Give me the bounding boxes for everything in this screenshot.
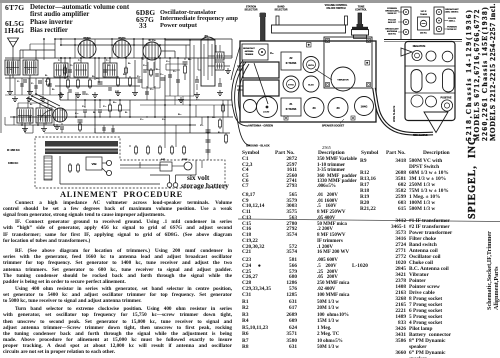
- svg-text:R₋: R₋: [128, 63, 131, 65]
- wire lead bundle: [231, 46, 240, 80]
- ground: [56, 124, 58, 127]
- svg-text:6L5G: 6L5G: [308, 85, 314, 87]
- svg-text:C₁₇: C₁₇: [173, 71, 176, 73]
- terminal B2: [426, 73, 436, 83]
- pointer line: [254, 63, 268, 104]
- chassis screw: [307, 43, 312, 48]
- wire: [169, 175, 171, 183]
- capacitor C6: [103, 69, 107, 71]
- resistor R17: [219, 118, 221, 120]
- wire: [55, 85, 140, 87]
- wire: [60, 99, 232, 101]
- svg-text:R₁₈: R₁₈: [218, 132, 222, 134]
- wire: [64, 58, 66, 78]
- tiny marks: [69, 57, 70, 58]
- capacitor C21 stack: [207, 117, 209, 155]
- wire: [24, 125, 26, 133]
- antenna coil L2: [23, 60, 38, 75]
- capacitor C29: [60, 126, 64, 128]
- svg-text:ANTENNA - GREEN: ANTENNA - GREEN: [248, 124, 273, 128]
- capacitor C2: [23, 79, 27, 81]
- strip1 ticks: [398, 11, 404, 13]
- paragraph 5: [3, 306, 232, 355]
- wire: [222, 100, 224, 133]
- svg-text:C₁₆: C₁₆: [160, 74, 163, 76]
- capacitor C15: [138, 79, 143, 81]
- right edge rotated model text: [488, 3, 497, 141]
- wire: [59, 92, 61, 100]
- terminal C3: [441, 100, 452, 111]
- tuning condenser box: [324, 37, 372, 88]
- ALINEMENT PROCEDURE title: [60, 190, 183, 199]
- speaker magnet: [244, 100, 257, 113]
- tube 1H4G: [53, 108, 67, 122]
- grid wire: [161, 50, 175, 52]
- svg-text:C₂₇: C₂₇: [103, 106, 107, 108]
- svg-text:C₆: C₆: [67, 76, 70, 78]
- svg-text:#2: #2: [290, 56, 293, 60]
- six volt storage battery label: [187, 173, 209, 182]
- IF trimmer box: [418, 17, 430, 30]
- wire: [195, 105, 197, 117]
- trimmer box C4: [242, 44, 268, 60]
- svg-text:C₅: C₅: [70, 65, 73, 67]
- ground: [180, 97, 182, 100]
- resistor R14: [150, 68, 152, 70]
- svg-text:S₁: S₁: [30, 104, 32, 106]
- IF transformer 1 box: [281, 98, 301, 116]
- ground: [9, 89, 11, 92]
- wire: [129, 145, 131, 147]
- svg-text:C₂₅: C₂₅: [75, 113, 79, 115]
- svg-text:33: 33: [336, 106, 340, 110]
- svg-text:FUSE: FUSE: [182, 159, 188, 161]
- RF coil L3: [17, 108, 33, 123]
- node: [13, 116, 15, 118]
- trimmer strip 1: [401, 7, 411, 40]
- svg-text:33: 33: [204, 34, 208, 38]
- wire: [17, 103, 19, 108]
- wire: [120, 167, 160, 169]
- resistor R5: [117, 76, 119, 78]
- resistor R22: [222, 103, 224, 105]
- svg-text:BROADCAST: BROADCAST: [243, 47, 255, 50]
- wire: [14, 78, 16, 95]
- svg-text:POSITIVE: POSITIVE: [440, 96, 451, 99]
- paragraph 2: [3, 219, 232, 244]
- svg-text:L₂: L₂: [28, 69, 30, 71]
- wire: [5, 94, 60, 96]
- svg-text:5400 KC: 5400 KC: [388, 21, 397, 24]
- vibrator VIB: [86, 157, 102, 170]
- volume control shaft: [345, 16, 348, 25]
- tube socket 33b: [328, 98, 348, 118]
- output transformer T5: [215, 52, 224, 60]
- wire: [169, 58, 171, 96]
- svg-text:C₇: C₇: [96, 78, 99, 80]
- wire: [59, 156, 61, 184]
- svg-text:IF 456 KC: IF 456 KC: [7, 148, 20, 152]
- capacitor C11: [106, 160, 111, 165]
- svg-text:CONTROL: CONTROL: [355, 9, 367, 12]
- resistor R12: [125, 66, 127, 68]
- svg-text:ANTENNA: ANTENNA: [245, 50, 254, 53]
- resistor R8: [129, 76, 131, 78]
- wire: [102, 162, 107, 164]
- power supply box: [35, 137, 225, 188]
- wire: [140, 104, 233, 106]
- tube socket 6L5G: [303, 76, 319, 92]
- parts list left: descriptions: [317, 157, 357, 190]
- chassis screw: [365, 61, 370, 66]
- IF transformer T4: [103, 63, 117, 77]
- resistor R7: [77, 163, 79, 165]
- svg-text:WIRE SLEEVE: WIRE SLEEVE: [393, 105, 396, 122]
- parts list left: part numbers: [268, 157, 297, 190]
- wire: [174, 96, 176, 105]
- wire: [60, 109, 130, 111]
- switch arc: [40, 110, 54, 120]
- node: [141, 57, 143, 59]
- tube socket 6S7G: [303, 57, 319, 73]
- svg-text:SELECTOR: SELECTOR: [275, 9, 288, 12]
- wire: [55, 38, 232, 40]
- terminal A2: [426, 51, 436, 61]
- svg-text:SELECTOR: SELECTOR: [245, 9, 258, 12]
- svg-text:C₈: C₈: [86, 94, 89, 96]
- wire: [22, 50, 24, 58]
- wire: [4, 117, 6, 125]
- wire: [196, 76, 198, 80]
- svg-text:456 KC: 456 KC: [420, 32, 427, 35]
- ground: [196, 92, 198, 95]
- capacitor C32: [68, 89, 72, 91]
- wire: [59, 75, 61, 100]
- capacitor C13: [161, 77, 166, 79]
- tube socket 6T7G: [283, 76, 299, 92]
- svg-text:C₁₈: C₁₈: [143, 65, 147, 67]
- wire: [18, 102, 48, 104]
- wire: [201, 160, 203, 168]
- antenna: [12, 47, 14, 60]
- svg-text:R₁₉: R₁₉: [188, 59, 191, 61]
- wire: [166, 63, 186, 65]
- wire: [7, 60, 9, 75]
- ground: [43, 126, 45, 129]
- svg-text:BAT.: BAT.: [161, 158, 166, 161]
- parts list right: part numbers: [378, 158, 406, 356]
- crease line: [238, 219, 500, 222]
- resistor R6: [79, 122, 81, 124]
- svg-text:C₁₅: C₁₅: [137, 76, 141, 78]
- svg-text:RED SLEEVE: RED SLEEVE: [413, 135, 428, 137]
- chassis outline: [240, 41, 376, 122]
- ground: [134, 90, 136, 93]
- wire: [146, 58, 148, 70]
- wire: [61, 123, 63, 125]
- tube 6S7G: [113, 40, 131, 58]
- wire: [94, 128, 96, 133]
- parts list right: descriptions: [409, 158, 452, 358]
- ground: [14, 96, 16, 99]
- resistor R11: [64, 66, 66, 68]
- capacitor C26: [83, 109, 87, 111]
- schematic index rotated: [486, 231, 493, 310]
- resistor R20: [109, 103, 111, 105]
- svg-text:TRIMMER: TRIMMER: [245, 54, 254, 56]
- terminal A1: [412, 51, 422, 61]
- capacitor C24: [145, 91, 149, 93]
- ground: [117, 90, 119, 93]
- capacitor C9: [20, 83, 24, 85]
- wire: [24, 123, 26, 126]
- loudspeaker: [257, 97, 278, 118]
- svg-text:6T7G: 6T7G: [149, 38, 156, 42]
- svg-text:T₃: T₃: [106, 60, 108, 62]
- wire: [5, 57, 232, 59]
- filter choke L5: [44, 156, 52, 180]
- svg-text:SPEAKER SOCKET: SPEAKER SOCKET: [322, 125, 345, 128]
- svg-text:C₂₂: C₂₂: [140, 119, 144, 121]
- resistor R3: [69, 163, 71, 165]
- wire: [60, 39, 62, 45]
- wire: [9, 75, 11, 89]
- wire: [208, 55, 215, 57]
- svg-text:IF TRANS: IF TRANS: [286, 62, 297, 65]
- svg-text:33: 33: [312, 106, 316, 110]
- svg-text:R₄: R₄: [92, 76, 95, 78]
- svg-text:5400-L: 5400-L: [449, 20, 456, 23]
- wire: [146, 86, 148, 100]
- svg-text:VIB: VIB: [91, 162, 97, 166]
- svg-text:#1: #1: [290, 102, 293, 106]
- svg-text:1H4G: 1H4G: [361, 105, 368, 109]
- capacitor C31: [195, 79, 199, 81]
- resistor R19: [184, 64, 186, 66]
- tone control shaft: [358, 13, 362, 25]
- svg-text:C₃: C₃: [45, 81, 48, 83]
- svg-text:C₆: C₆: [108, 65, 111, 67]
- SPIEGEL INC rotated: [467, 133, 478, 219]
- wire speaker lead: [238, 64, 249, 112]
- paragraph 1: [3, 200, 232, 219]
- capacitor C27: [98, 109, 102, 111]
- svg-text:R₆: R₆: [93, 112, 96, 114]
- node: [84, 99, 86, 101]
- svg-text:6S7G: 6S7G: [308, 65, 314, 67]
- RF coil L4: [36, 108, 52, 123]
- resistor R4: [89, 78, 91, 80]
- wire: [10, 116, 233, 118]
- wire: [165, 95, 194, 97]
- ground: [227, 68, 229, 71]
- svg-text:6D8G: 6D8G: [83, 36, 90, 40]
- capacitor C17: [176, 79, 180, 81]
- svg-text:1ST IF: 1ST IF: [420, 11, 427, 13]
- wire: [189, 40, 191, 133]
- svg-text:R₂₀: R₂₀: [113, 102, 117, 104]
- svg-text:C₂₆: C₂₆: [82, 106, 86, 108]
- battery terminal +: [167, 183, 172, 188]
- wire: [60, 44, 190, 46]
- bat fuse box: [160, 162, 172, 171]
- trimmer panel base: [384, 39, 462, 41]
- svg-text:T₂: T₂: [78, 60, 80, 62]
- wire antenna lead: [232, 60, 248, 126]
- power transformer T6: [45, 141, 118, 147]
- coil shield: [243, 80, 279, 96]
- IF transformer 2 box: [281, 52, 301, 70]
- wire: [184, 58, 186, 60]
- svg-text:GROUND - BLACK: GROUND - BLACK: [246, 144, 270, 148]
- ground: [29, 89, 31, 92]
- wire: [20, 49, 55, 51]
- svg-text:1400 KC: 1400 KC: [388, 33, 397, 36]
- wire: [94, 58, 96, 80]
- capacitor C7: [183, 61, 188, 63]
- ground: [60, 92, 62, 95]
- battery terminal -: [173, 183, 178, 188]
- ground: [77, 92, 79, 95]
- svg-text:C₁₂: C₁₂: [166, 61, 169, 63]
- wire: [215, 45, 217, 52]
- tube 6D8G: [78, 40, 96, 58]
- wire: [84, 100, 86, 108]
- IF transformer T3: [74, 63, 88, 77]
- wire: [197, 58, 199, 70]
- resistor R21: [119, 103, 121, 105]
- trimmer strip 2: [434, 7, 444, 34]
- svg-text:NEGATIVE: NEGATIVE: [413, 45, 426, 48]
- svg-text:C₂₃: C₂₃: [162, 119, 166, 121]
- svg-text:IF TRANS: IF TRANS: [286, 108, 297, 111]
- wire: [142, 39, 144, 60]
- tube 6T7G: [143, 42, 161, 60]
- terminal C2: [426, 96, 437, 107]
- node: [60, 57, 62, 59]
- wire: [60, 58, 62, 63]
- output tube 33: [201, 40, 215, 86]
- pointer 6S7G: [315, 69, 332, 80]
- strip2 ticks: [445, 11, 449, 13]
- tube socket 1H4G: [355, 97, 374, 116]
- resistor R10: [47, 77, 49, 79]
- svg-text:C₂₁: C₂₁: [200, 125, 204, 127]
- battery panel: [405, 42, 455, 121]
- positive plug: [424, 112, 448, 133]
- capacitor C8: [98, 81, 103, 83]
- antenna coil L1: [5, 60, 20, 75]
- wire: [141, 58, 143, 88]
- svg-text:C₂₄: C₂₄: [150, 89, 154, 91]
- capacitor C20: [78, 119, 83, 121]
- svg-text:R₁₀: R₁₀: [178, 114, 181, 116]
- tube function list column 1: [5, 3, 24, 12]
- capacitor C5: [68, 69, 72, 71]
- svg-text:1560 KC: 1560 KC: [8, 161, 18, 165]
- ground: [24, 126, 26, 129]
- svg-text:ON-OFF SWITCH: ON-OFF SWITCH: [326, 7, 346, 10]
- svg-text:R₁₇: R₁₇: [212, 117, 215, 119]
- resistor R2: [77, 78, 79, 80]
- svg-text:R₇: R₇: [125, 112, 128, 114]
- wire: [5, 77, 140, 79]
- battery cable: [374, 88, 433, 134]
- wire ground lead: [235, 62, 250, 146]
- paragraph 3: [3, 248, 232, 285]
- capacitor C3: [38, 80, 42, 82]
- svg-text:R₂: R₂: [52, 89, 55, 91]
- wire: [12, 60, 14, 78]
- svg-text:15000 KC: 15000 KC: [387, 13, 397, 15]
- resistor R18: [225, 133, 227, 135]
- svg-text:6T7G: 6T7G: [288, 85, 294, 87]
- coil shield: [243, 62, 279, 78]
- resistor row R13-R16: [135, 145, 137, 147]
- parts list right: symbols: [360, 158, 376, 212]
- svg-text:C₄: C₄: [270, 51, 274, 55]
- wire: [95, 132, 230, 134]
- negative pointer: [401, 48, 412, 56]
- svg-text:R₃: R₃: [61, 94, 64, 96]
- svg-text:C₁₀: C₁₀: [115, 91, 118, 93]
- svg-text:L₁: L₁: [10, 69, 12, 71]
- capacitor C16: [168, 74, 172, 76]
- wire: [142, 87, 160, 89]
- svg-text:15750 KC: 15750 KC: [447, 29, 457, 31]
- svg-text:VIBRATOR: VIBRATOR: [337, 79, 349, 82]
- capacitor C30: [102, 127, 106, 129]
- svg-text:C₁₉: C₁₉: [196, 99, 199, 101]
- svg-text:TRANS: TRANS: [420, 13, 428, 16]
- fuse capsule 1: [411, 70, 422, 93]
- parts list headers: [242, 150, 259, 156]
- node: [64, 57, 66, 59]
- fuse capsule 2: [443, 69, 455, 92]
- wire: [13, 117, 15, 125]
- parts list left: symbols: [242, 157, 252, 190]
- chassis screw: [284, 116, 288, 120]
- svg-text:6S7G: 6S7G: [118, 36, 125, 40]
- wire: [164, 125, 166, 148]
- chassis screw: [351, 116, 355, 120]
- top scan edge band: [0, 0, 500, 3]
- dial bar: [272, 25, 346, 33]
- svg-text:R₅: R₅: [123, 74, 126, 76]
- svg-text:C₂: C₂: [31, 83, 34, 85]
- wire: [19, 50, 21, 60]
- tube function list column 2: [136, 8, 155, 17]
- svg-text:R₁₄: R₁₄: [156, 69, 160, 71]
- wire: [18, 124, 196, 126]
- wire: [165, 39, 201, 41]
- tube socket 33: [304, 98, 324, 118]
- ground: [94, 92, 96, 95]
- svg-text:R₁: R₁: [45, 75, 48, 77]
- resistor R1: [67, 78, 69, 80]
- svg-text:LOUD: LOUD: [263, 112, 270, 114]
- paragraph 4: [3, 286, 232, 305]
- wire: [84, 112, 86, 117]
- station selector shaft: [261, 13, 266, 41]
- vibrator can: [331, 67, 355, 91]
- band switch S1: [28, 98, 52, 110]
- svg-text:T₁: T₁: [58, 60, 60, 62]
- band selector shaft: [276, 16, 279, 25]
- oscillator coil T2: [54, 63, 68, 77]
- terminal C1: [411, 95, 423, 107]
- svg-text:C₁: C₁: [17, 81, 20, 83]
